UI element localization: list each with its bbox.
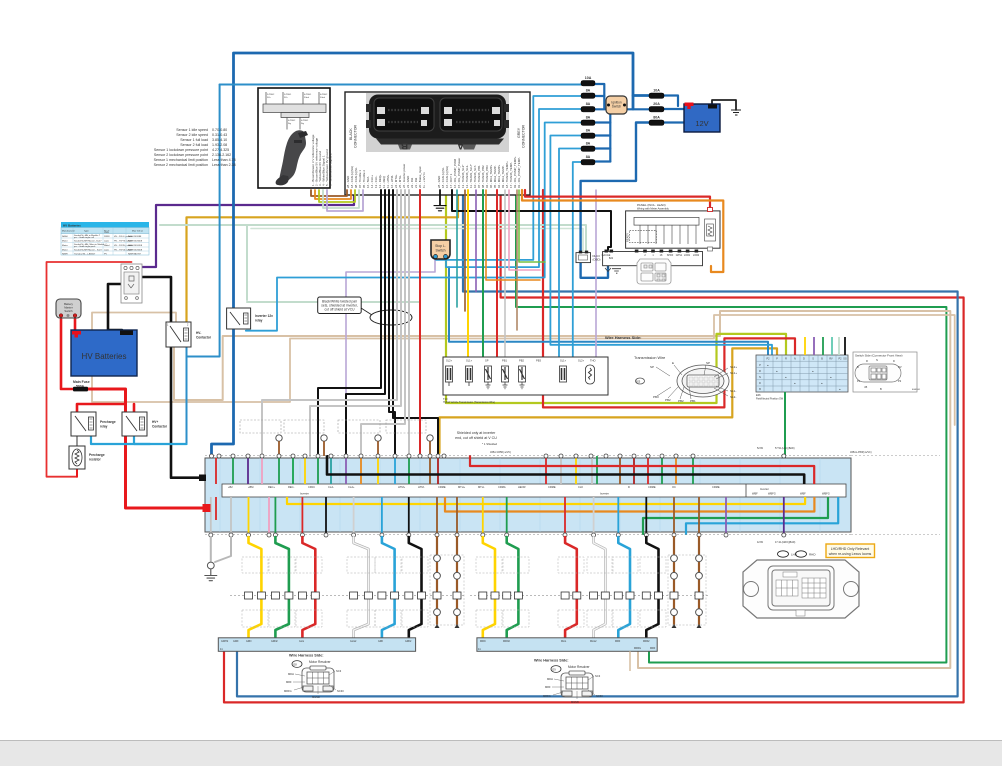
svg-text:0.70-0.80: 0.70-0.80 xyxy=(212,128,227,132)
svg-text:Sensor 2 lockdown pressure poi: Sensor 2 lockdown pressure point xyxy=(154,153,208,157)
svg-text:SL2+: SL2+ xyxy=(730,365,737,369)
svg-text:PB2: PB2 xyxy=(519,359,524,363)
svg-text:Contactor: Contactor xyxy=(196,336,212,340)
svg-text:P2: P2 xyxy=(898,379,902,383)
svg-text:Sensor 2 idle speed: Sensor 2 idle speed xyxy=(176,133,208,137)
svg-text:8A: 8A xyxy=(586,116,591,120)
svg-text:RHD: RHD xyxy=(809,553,816,557)
svg-text:57 52-(LAC)(BAD): 57 52-(LAC)(BAD) xyxy=(775,447,795,450)
svg-text:D: D xyxy=(628,485,630,489)
svg-text:4-PRG1: 4-PRG1 xyxy=(304,94,312,96)
svg-text:resistor: resistor xyxy=(89,458,101,462)
svg-text:PB2: PB2 xyxy=(678,399,684,403)
svg-text:MTH+: MTH+ xyxy=(458,485,466,489)
svg-text:6 - White/Green Signal 2: 6 - White/Green Signal 2 xyxy=(329,153,333,186)
svg-text:OC: OC xyxy=(672,485,676,489)
svg-text:Motor: Motor xyxy=(62,249,68,252)
svg-text:PB3: PB3 xyxy=(536,359,541,363)
svg-text:GLG: GLG xyxy=(299,640,304,643)
svg-text:SL1-: SL1- xyxy=(730,389,736,393)
svg-text:5-PRG2: 5-PRG2 xyxy=(267,94,275,96)
svg-text:SL1+: SL1+ xyxy=(560,359,567,363)
svg-text:MDH: MDH xyxy=(288,672,294,676)
svg-text:D: D xyxy=(893,359,895,363)
svg-text:relay: relay xyxy=(255,319,263,323)
svg-text:SPDF: SPDF xyxy=(667,254,674,257)
svg-text:MLG: MLG xyxy=(561,640,566,643)
svg-text:when re-using Lexus looms: when re-using Lexus looms xyxy=(829,552,872,556)
svg-text:E05: E05 xyxy=(636,381,641,384)
svg-text:* 1 Shielded: * 1 Shielded xyxy=(482,442,498,446)
svg-text:4-PRG2: 4-PRG2 xyxy=(288,120,296,122)
svg-text:10A: 10A xyxy=(653,89,660,93)
svg-text:GREY: GREY xyxy=(517,127,521,138)
svg-text:WBF: WBF xyxy=(752,492,758,496)
svg-text:47 42-(GRO)(BAD): 47 42-(GRO)(BAD) xyxy=(775,541,796,544)
svg-text:28/38: 28/38 xyxy=(104,236,110,238)
svg-text:NC30: NC30 xyxy=(337,689,344,693)
svg-text:MRFG: MRFG xyxy=(284,689,292,693)
svg-text:N: N xyxy=(876,358,878,362)
svg-text:PB2: PB2 xyxy=(665,398,671,402)
svg-text:MRF: MRF xyxy=(650,647,656,650)
svg-text:Manufacturer: Manufacturer xyxy=(62,230,75,233)
svg-text:MTH-: MTH- xyxy=(478,485,485,489)
svg-text:LOR1: LOR1 xyxy=(684,254,691,257)
svg-text:SP: SP xyxy=(650,365,654,369)
svg-text:Type: Type xyxy=(84,231,90,233)
svg-text:Less than 4.78: Less than 4.78 xyxy=(212,158,236,162)
svg-text:MRN2: MRN2 xyxy=(503,640,510,643)
svg-text:Sensor 2 mechanical limit posi: Sensor 2 mechanical limit position xyxy=(154,163,208,167)
svg-text:CRME: CRME xyxy=(648,485,656,489)
svg-text:Precharge: Precharge xyxy=(100,420,116,424)
svg-text:CLA-: CLA- xyxy=(328,485,334,489)
svg-text:GRN: GRN xyxy=(246,640,252,643)
svg-text:CRME: CRME xyxy=(438,485,446,489)
svg-text:CLK: CLK xyxy=(578,485,583,489)
svg-text:HTM-: HTM- xyxy=(418,485,425,489)
svg-text:GWH2: GWH2 xyxy=(221,640,229,643)
svg-text:Motor: Motor xyxy=(62,244,68,247)
svg-text:+BM: +BM xyxy=(248,485,253,489)
svg-text:E06F501: E06F501 xyxy=(912,389,921,391)
svg-text:5Gnd: 5Gnd xyxy=(320,97,325,99)
svg-text:E06: E06 xyxy=(756,393,761,397)
svg-text:E: E xyxy=(672,361,674,365)
svg-text:WBFG: WBFG xyxy=(768,492,776,496)
svg-text:PB1: PB1 xyxy=(502,359,507,363)
svg-text:MRFG: MRFG xyxy=(543,694,551,698)
svg-text:4-PRG2: 4-PRG2 xyxy=(320,94,328,96)
svg-text:8A: 8A xyxy=(586,155,591,159)
svg-text:×B: ×B xyxy=(864,385,868,389)
svg-text:Yamaha NiL, x-B6507: Yamaha NiL, x-B6507 xyxy=(74,254,96,256)
svg-text:1.93-2.08: 1.93-2.08 xyxy=(212,143,227,147)
svg-text:pcs - 6mA single cell: pcs - 6mA single cell xyxy=(74,236,94,239)
svg-text:HV-: HV- xyxy=(196,331,201,335)
svg-text:CRMA: CRMA xyxy=(498,485,506,489)
svg-text:Park/Neutral Position SW: Park/Neutral Position SW xyxy=(756,397,784,400)
svg-text:SL1+: SL1+ xyxy=(730,371,737,375)
svg-text:Wiring with Meter Assembly: Wiring with Meter Assembly xyxy=(637,207,670,211)
svg-text:Sensor 1 full load: Sensor 1 full load xyxy=(180,138,208,142)
svg-text:RV: RV xyxy=(829,358,833,361)
svg-text:Sensor 1 lockdown pressure poi: Sensor 1 lockdown pressure point xyxy=(154,148,208,152)
svg-text:E9: E9 xyxy=(553,667,557,671)
svg-text:Wire Harness Side:: Wire Harness Side: xyxy=(534,659,569,663)
svg-text:MLG2: MLG2 xyxy=(590,640,597,643)
svg-text:MGND: MGND xyxy=(571,700,579,704)
svg-text:CPAC: CPAC xyxy=(308,485,315,489)
svg-text:Motor: Motor xyxy=(62,240,68,243)
svg-text:R: R xyxy=(785,358,787,361)
svg-text:Switch Side (Connector Front V: Switch Side (Connector Front View) xyxy=(855,354,902,358)
svg-text:Inverter 12v: Inverter 12v xyxy=(255,314,273,318)
svg-text:NiMH DD6608: NiMH DD6608 xyxy=(128,241,143,243)
svg-text:HV+: HV+ xyxy=(152,420,158,424)
svg-text:A: A xyxy=(457,140,464,151)
svg-text:MRF2: MRF2 xyxy=(643,640,650,643)
svg-text:5Gnd: 5Gnd xyxy=(304,97,309,99)
svg-text:Stop L.: Stop L. xyxy=(435,244,446,248)
svg-text:+B2: +B2 xyxy=(228,485,233,489)
svg-text:80A: 80A xyxy=(653,116,660,120)
svg-text:NiMH DDR88: NiMH DDR88 xyxy=(128,236,142,238)
svg-text:SL2-: SL2- xyxy=(730,395,736,399)
svg-text:4.27-4.325: 4.27-4.325 xyxy=(212,148,229,152)
svg-text:Inverter: Inverter xyxy=(760,487,769,491)
svg-text:GWF: GWF xyxy=(233,640,239,643)
svg-text:CLA+: CLA+ xyxy=(348,485,355,489)
svg-text:NC3: NC3 xyxy=(336,669,342,673)
svg-text:MRF: MRF xyxy=(615,640,621,643)
svg-text:Transmission Wire: Transmission Wire xyxy=(634,356,665,360)
svg-text:A55A/ A55R) w/VC): A55A/ A55R) w/VC) xyxy=(490,451,511,454)
svg-text:Inverter: Inverter xyxy=(300,492,309,496)
svg-text:Switch: Switch xyxy=(436,249,446,253)
svg-text:Max Volt at: Max Volt at xyxy=(132,230,143,233)
svg-text:Sig: Sig xyxy=(301,123,304,125)
svg-text:20A: 20A xyxy=(653,102,660,106)
svg-text:Inverter: Inverter xyxy=(600,492,609,496)
svg-text:42 BJ: 42 BJ xyxy=(757,541,764,544)
svg-text:D: D xyxy=(803,358,805,361)
svg-text:REC+: REC+ xyxy=(268,485,275,489)
svg-text:1L - +12V In: 1L - +12V In xyxy=(422,172,426,188)
svg-text:10A: 10A xyxy=(585,76,592,80)
svg-text:Switch: Switch xyxy=(612,105,622,109)
svg-text:PB1: PB1 xyxy=(690,399,696,403)
svg-text:8A: 8A xyxy=(586,129,591,133)
svg-text:12V: 12V xyxy=(695,119,708,128)
svg-text:NiMH: NiMH xyxy=(62,254,68,256)
svg-text:SP: SP xyxy=(706,361,710,365)
svg-text:GRF: GRF xyxy=(378,640,384,643)
svg-text:Wire Harness Side:: Wire Harness Side: xyxy=(605,335,641,340)
svg-text:MRF: MRF xyxy=(286,680,292,684)
svg-text:Sensor 1 idle speed: Sensor 1 idle speed xyxy=(176,128,208,132)
svg-text:Motor Resolver: Motor Resolver xyxy=(568,665,591,669)
svg-text:Shielded only at inverter: Shielded only at inverter xyxy=(457,431,496,435)
svg-text:Sensor 1 mechanical limit posi: Sensor 1 mechanical limit position xyxy=(154,158,208,162)
svg-text:2.138-2.162: 2.138-2.162 xyxy=(212,153,231,157)
svg-text:GLG2: GLG2 xyxy=(350,640,357,643)
svg-text:NiMH DD6208: NiMH DD6208 xyxy=(128,245,143,247)
svg-text:WBF: WBF xyxy=(800,492,806,496)
svg-text:NiMH BD787: NiMH BD787 xyxy=(128,254,142,256)
svg-text:GRN2: GRN2 xyxy=(271,640,278,643)
svg-text:CONNECTOR: CONNECTOR xyxy=(354,125,358,148)
svg-text:Sensor 2 full load: Sensor 2 full load xyxy=(180,143,208,147)
svg-text:3.85-4.10: 3.85-4.10 xyxy=(212,138,227,142)
svg-text:5Vs: 5Vs xyxy=(284,97,287,99)
svg-text:01 - OIL_PUMP_TEMP-: 01 - OIL_PUMP_TEMP- xyxy=(517,157,521,188)
svg-text:CRME: CRME xyxy=(712,485,720,489)
svg-text:A55AL A55R) w/VC): A55AL A55R) w/VC) xyxy=(850,451,872,454)
svg-text:pcs - 6mA single-pack: pcs - 6mA single-pack xyxy=(74,245,96,248)
svg-text:MGND: MGND xyxy=(312,695,320,699)
svg-text:WBFG: WBFG xyxy=(822,492,830,496)
svg-text:N: N xyxy=(794,358,796,361)
svg-text:GPS1: GPS1 xyxy=(676,254,683,257)
svg-text:B: B xyxy=(880,387,882,391)
svg-text:SL2+: SL2+ xyxy=(578,359,585,363)
svg-text:SP: SP xyxy=(485,359,489,363)
svg-text:cut off shield at VCU: cut off shield at VCU xyxy=(325,308,356,312)
svg-text:SL2+: SL2+ xyxy=(446,359,453,363)
svg-text:LOR2: LOR2 xyxy=(693,254,700,257)
svg-text:D: D xyxy=(759,382,761,385)
svg-text:Sealed Ni-MH Master - Sum*: Sealed Ni-MH Master - Sum* xyxy=(74,249,102,252)
svg-text:B: B xyxy=(401,140,408,151)
svg-text:Sealed Ni-MH Master -Sum*: Sealed Ni-MH Master -Sum* xyxy=(74,240,102,243)
svg-text:MDH: MDH xyxy=(547,677,553,681)
svg-text:B22: B22 xyxy=(609,257,614,260)
svg-text:Sig: Sig xyxy=(288,123,291,125)
svg-text:Wire Harness Side:: Wire Harness Side: xyxy=(289,654,324,658)
svg-text:8A: 8A xyxy=(586,89,591,93)
svg-text:Motor Resolver: Motor Resolver xyxy=(309,660,332,664)
svg-text:CONNECTOR: CONNECTOR xyxy=(522,125,526,148)
svg-text:NiMH DD6608: NiMH DD6608 xyxy=(128,250,143,252)
svg-text:Precharge: Precharge xyxy=(89,453,105,457)
svg-text:MRN: MRN xyxy=(480,640,486,643)
svg-text:SL1+: SL1+ xyxy=(466,359,473,363)
svg-text:(OBD): (OBD) xyxy=(593,258,601,262)
svg-text:NC3: NC3 xyxy=(595,674,601,678)
svg-text:Switch: Switch xyxy=(64,309,73,313)
svg-text:MRF: MRF xyxy=(545,685,551,689)
svg-text:B: B xyxy=(857,365,859,369)
svg-text:GRF2: GRF2 xyxy=(405,640,412,643)
svg-text:HEOR: HEOR xyxy=(518,485,526,489)
svg-text:HV Batteries: HV Batteries xyxy=(82,352,127,361)
svg-text:5Vs: 5Vs xyxy=(267,97,270,99)
svg-text:THO: THO xyxy=(590,359,595,363)
svg-text:HTM+: HTM+ xyxy=(398,485,406,489)
svg-text:PL: PL xyxy=(857,379,861,383)
svg-text:8A: 8A xyxy=(586,142,591,146)
svg-text:R: R xyxy=(866,359,868,363)
svg-text:52 BJ: 52 BJ xyxy=(757,447,764,450)
svg-text:0.31-0.43: 0.31-0.43 xyxy=(212,133,227,137)
svg-text:relay: relay xyxy=(100,425,108,429)
svg-text:RV: RV xyxy=(898,365,902,369)
svg-text:Lipro: Lipro xyxy=(104,249,110,252)
svg-text:REC-: REC- xyxy=(288,485,294,489)
svg-text:CRME: CRME xyxy=(548,485,556,489)
svg-text:4-PRG1: 4-PRG1 xyxy=(301,120,309,122)
svg-text:NC30: NC30 xyxy=(596,694,603,698)
svg-text:Lipro: Lipro xyxy=(104,240,110,243)
svg-text:BLACK: BLACK xyxy=(349,128,353,140)
svg-text:R: R xyxy=(759,370,761,373)
svg-text:MRFG: MRFG xyxy=(634,647,641,650)
svg-text:radial: radial xyxy=(104,244,110,247)
svg-text:HV Batteries: HV Batteries xyxy=(63,223,81,227)
svg-text:NiMH: NiMH xyxy=(62,236,68,238)
svg-text:8A: 8A xyxy=(586,102,591,106)
svg-text:SG: SG xyxy=(843,358,847,361)
svg-text:Hybrid Vehicle Transmission (T: Hybrid Vehicle Transmission (Transmissio… xyxy=(443,401,495,404)
svg-text:5-PRG1: 5-PRG1 xyxy=(284,94,292,96)
svg-text:end, cut off shield at V CU: end, cut off shield at V CU xyxy=(455,436,497,440)
svg-text:E8: E8 xyxy=(294,662,298,666)
svg-text:READY: READY xyxy=(626,233,630,242)
svg-text:PB3: PB3 xyxy=(653,395,659,399)
svg-text:PANEL (INCL. LEAD): PANEL (INCL. LEAD) xyxy=(637,203,666,207)
svg-text:N: N xyxy=(759,376,761,379)
svg-text:Contactor: Contactor xyxy=(152,425,168,429)
svg-text:LHD/RHD Only Relevant: LHD/RHD Only Relevant xyxy=(831,547,870,551)
svg-text:Less than 2.38: Less than 2.38 xyxy=(212,163,236,167)
